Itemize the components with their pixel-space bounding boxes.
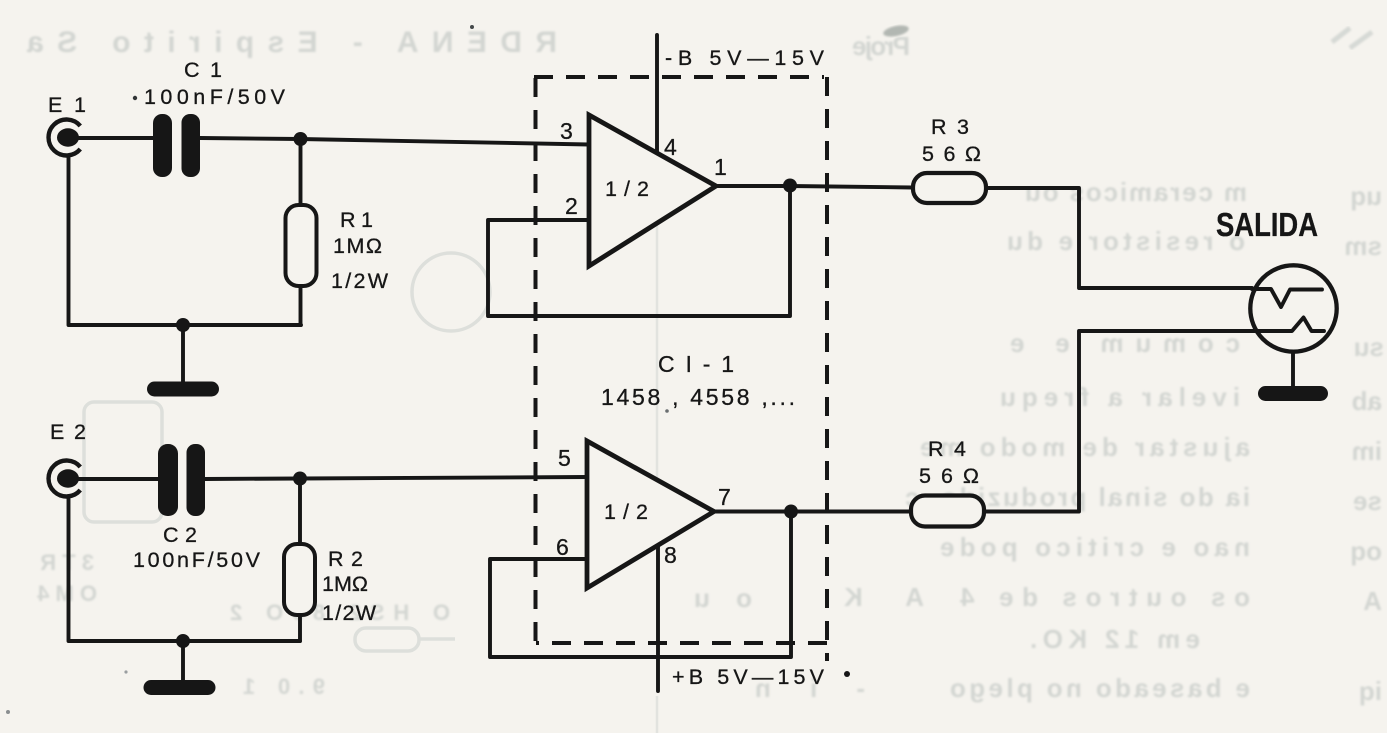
svg-text:56Ω: 56Ω xyxy=(919,464,979,488)
svg-text:1: 1 xyxy=(714,154,727,180)
svg-text:o resistor e du: o resistor e du xyxy=(1007,226,1245,256)
svg-text:se: se xyxy=(1353,486,1382,516)
svg-text:su: su xyxy=(1354,332,1384,362)
svg-text:A K: A K xyxy=(844,582,924,612)
svg-text:ivelar a frequ: ivelar a frequ xyxy=(1000,382,1240,412)
svg-text:ab: ab xyxy=(1352,386,1382,416)
svg-text:4: 4 xyxy=(664,134,677,160)
svg-text:R 4: R 4 xyxy=(928,437,966,461)
svg-text:1/2W: 1/2W xyxy=(331,269,389,293)
svg-text:iq: iq xyxy=(1359,676,1382,706)
svg-text:nao e critico pode: nao e critico pode xyxy=(940,532,1250,562)
svg-text:Proje: Proje xyxy=(852,31,910,61)
svg-text:1/2: 1/2 xyxy=(604,500,648,524)
svg-text:C 1: C 1 xyxy=(184,58,222,82)
svg-text:R 1: R 1 xyxy=(340,208,373,232)
svg-text:100nF/50V: 100nF/50V xyxy=(144,85,286,109)
svg-text:SALIDA: SALIDA xyxy=(1216,206,1318,243)
svg-text:8: 8 xyxy=(664,542,677,568)
svg-text:1MΩ: 1MΩ xyxy=(322,572,368,596)
svg-text:2: 2 xyxy=(565,193,578,219)
svg-text:m ceramicos ou: m ceramicos ou xyxy=(1025,177,1247,207)
svg-text:im: im xyxy=(1352,436,1382,466)
svg-text:oq: oq xyxy=(1350,536,1382,566)
svg-text:E 1: E 1 xyxy=(48,93,86,117)
svg-text:7: 7 xyxy=(718,484,731,510)
svg-text:1/2: 1/2 xyxy=(605,177,649,201)
svg-text:C 2: C 2 xyxy=(163,523,197,547)
svg-text:em 12 KO.: em 12 KO. xyxy=(1030,624,1200,654)
svg-text:6: 6 xyxy=(556,534,569,560)
svg-text:sm: sm xyxy=(1344,231,1382,261)
svg-text:56Ω: 56Ω xyxy=(922,142,981,166)
svg-text:uq: uq xyxy=(1350,181,1382,211)
svg-text:3: 3 xyxy=(560,118,573,144)
svg-text:C I - 1: C I - 1 xyxy=(658,351,734,377)
svg-text:100nF/50V: 100nF/50V xyxy=(133,548,261,572)
svg-text:A: A xyxy=(1363,586,1382,616)
svg-text:1/2W: 1/2W xyxy=(322,601,377,625)
svg-text:R 3: R 3 xyxy=(931,115,969,139)
svg-text:1MΩ: 1MΩ xyxy=(333,234,382,258)
svg-text:5: 5 xyxy=(558,445,571,471)
svg-text:E 2: E 2 xyxy=(50,420,86,444)
